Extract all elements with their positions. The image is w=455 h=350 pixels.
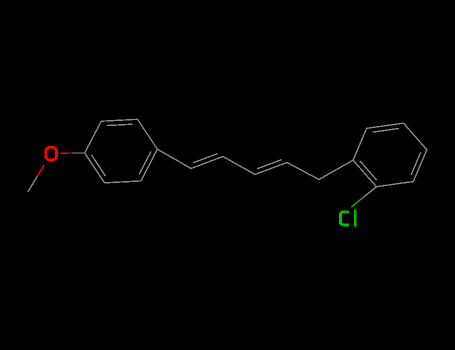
C-Cl bond (gray half) [364, 187, 377, 197]
right benzene ring [353, 128, 366, 160]
methoxy CH3-O bond (red half) [37, 165, 44, 177]
methoxy CH3-O bond (gray half) [28, 177, 37, 192]
O to ring bond (gray half) [73, 152, 85, 154]
C-Cl bond (green half) [351, 197, 364, 207]
polyene chain [157, 149, 191, 168]
O to ring bond (red half) [61, 152, 73, 154]
O atom label [46, 147, 57, 160]
Cl atom label: l glyph [354, 210, 356, 227]
left benzene ring [85, 121, 101, 153]
Cl atom label: C glyph [340, 212, 349, 225]
